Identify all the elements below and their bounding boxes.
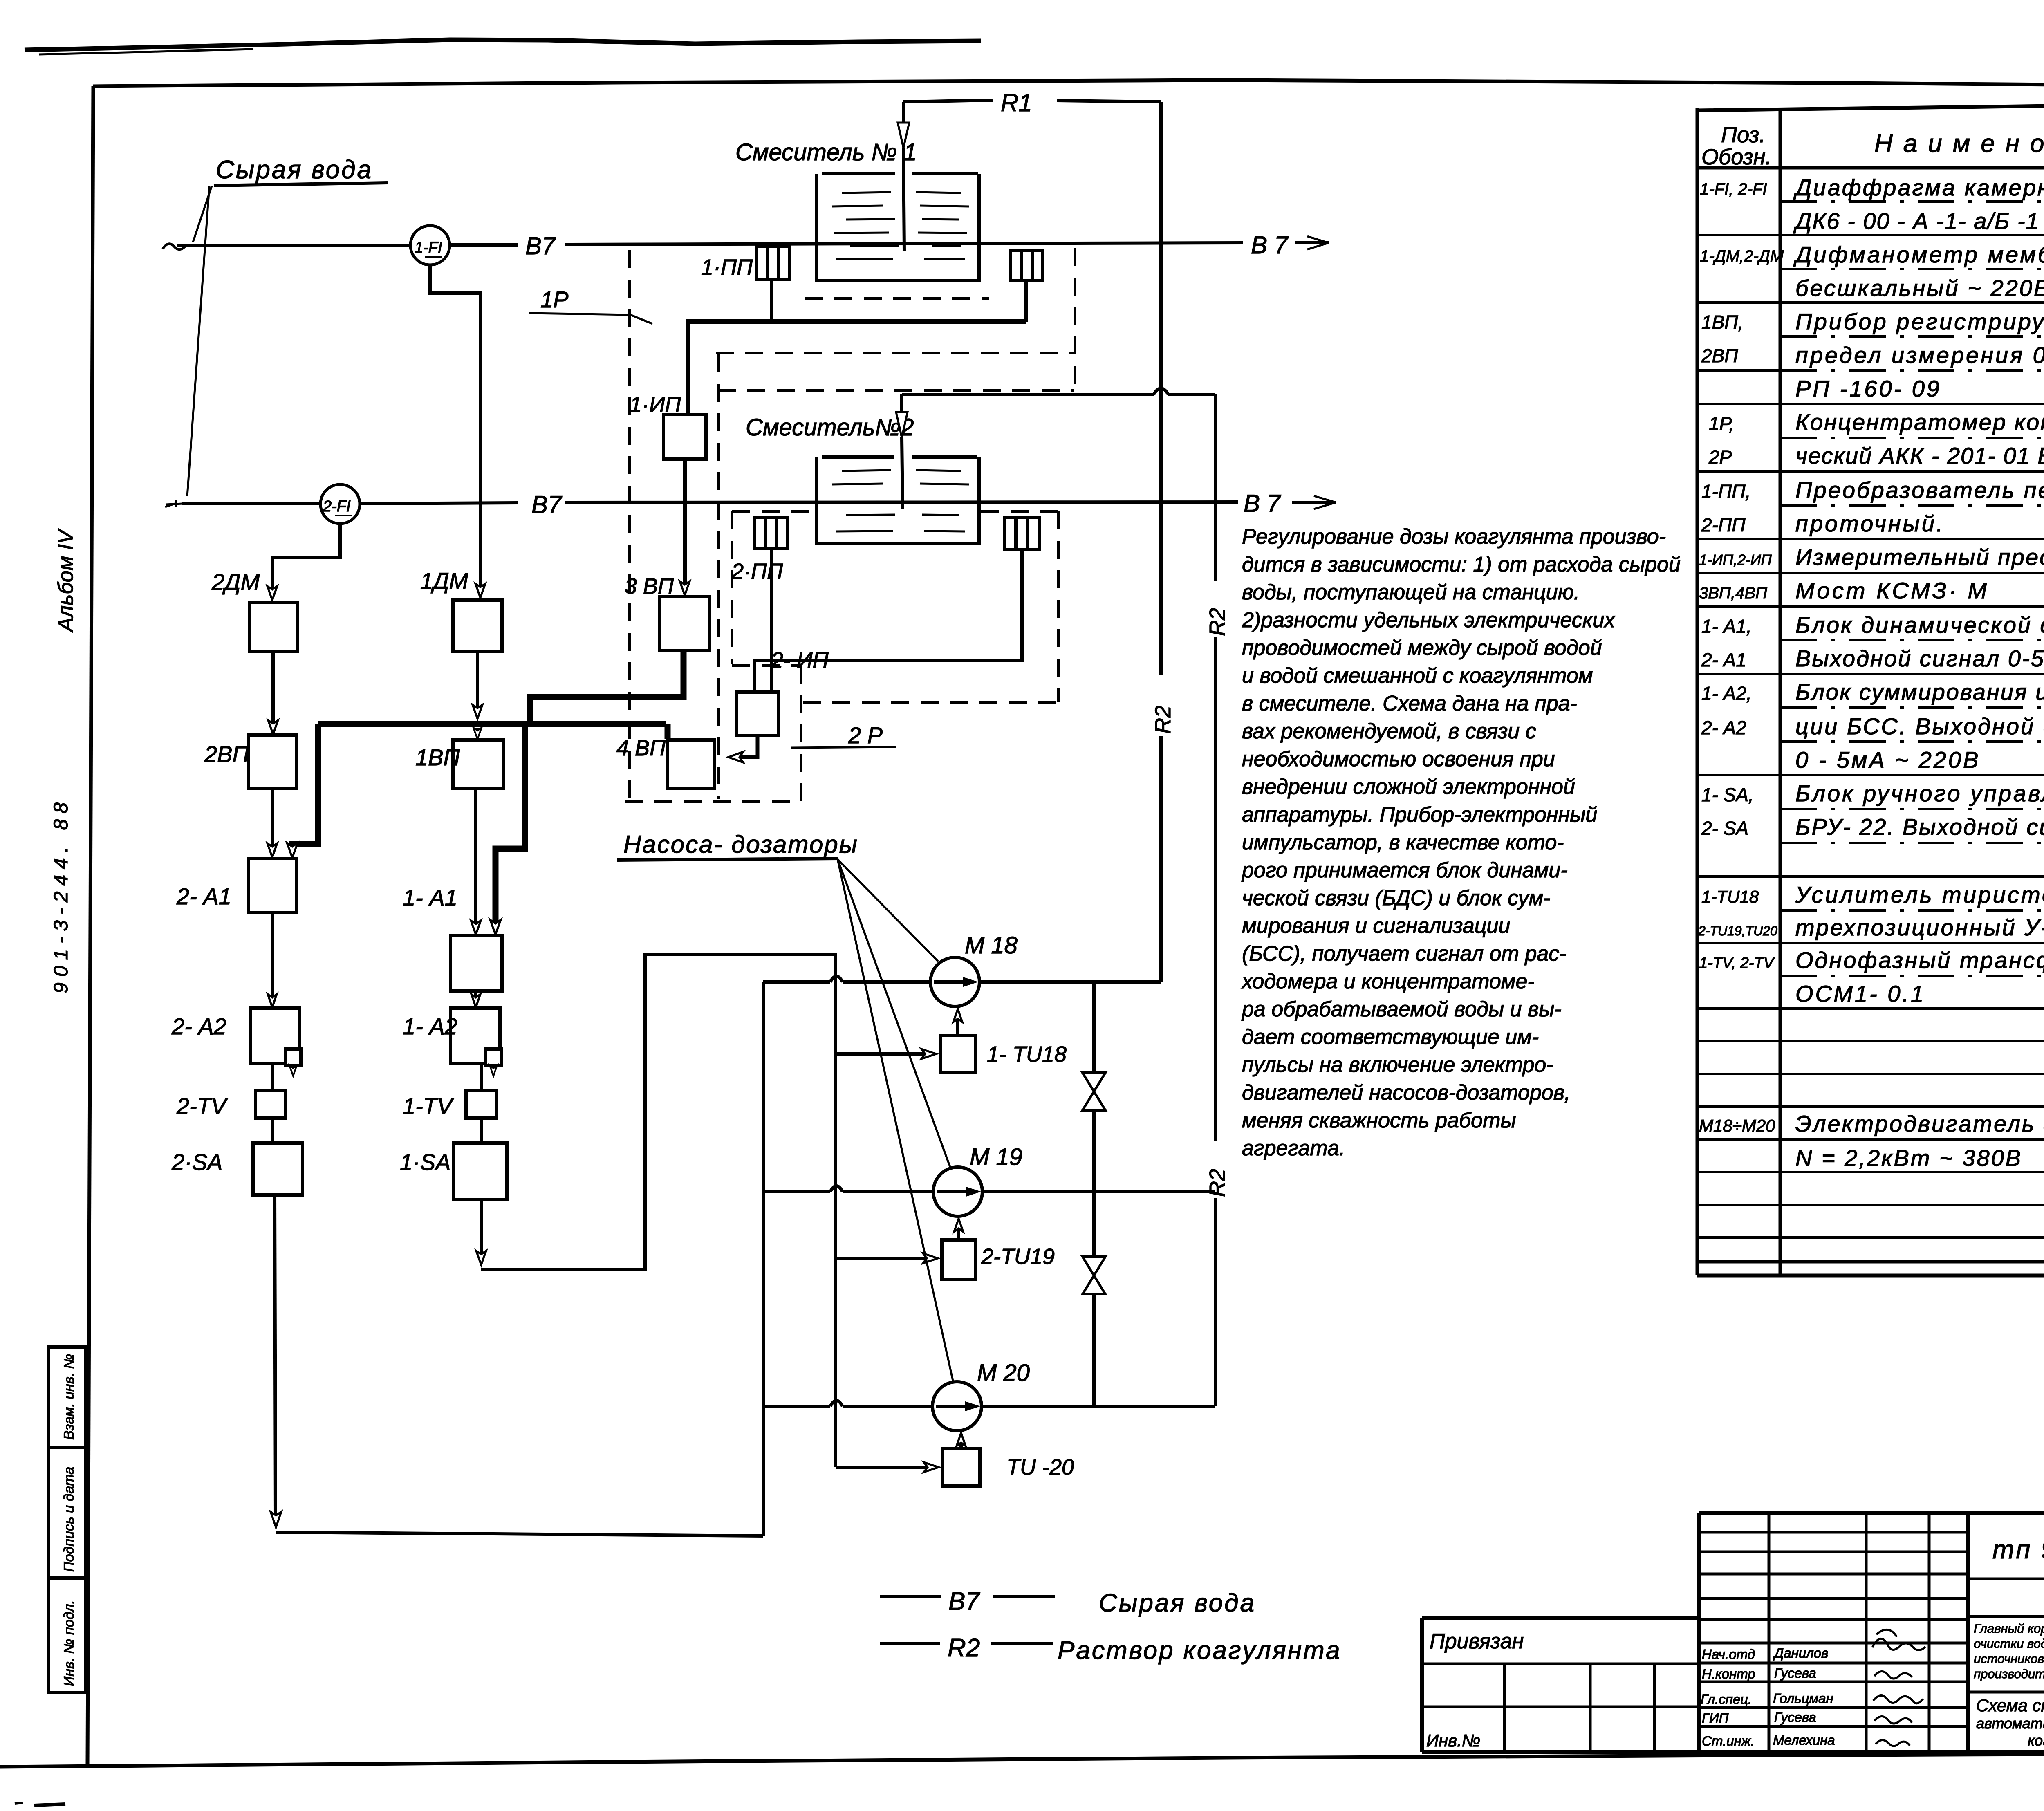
block 2-SA bbox=[171, 1143, 303, 1195]
svg-text:Прибор регистрирующий,: Прибор регистрирующий, bbox=[1795, 309, 2044, 334]
svg-text:проводимостей между сырой водо: проводимостей между сырой водой bbox=[1242, 636, 1602, 660]
svg-text:Привязан: Привязан bbox=[1430, 1629, 1524, 1653]
svg-text:Мост КСМЗ· М: Мост КСМЗ· М bbox=[1795, 578, 1989, 603]
svg-text:источников мутностью до 1500мг: источников мутностью до 1500мг/л bbox=[1974, 1652, 2044, 1666]
svg-text:2ДМ: 2ДМ bbox=[211, 569, 260, 595]
svg-text:В7: В7 bbox=[525, 232, 556, 260]
label 1Р with leader bbox=[529, 287, 652, 324]
svg-text:Концентратомер кондуктометри: Концентратомер кондуктометри bbox=[1795, 409, 2044, 435]
wire 1-FI to 1ДМ bbox=[430, 265, 485, 598]
svg-text:R2: R2 bbox=[1151, 706, 1175, 734]
left box bbox=[1422, 1663, 1699, 1665]
svg-text:Усилитель тиристорный: Усилитель тиристорный bbox=[1795, 882, 2044, 908]
wire TU feed to 1-TU18 bbox=[836, 1049, 936, 1059]
svg-text:М 20: М 20 bbox=[977, 1360, 1030, 1386]
svg-text:тп 901- 3 - 244. 88: тп 901- 3 - 244. 88 bbox=[1992, 1535, 2044, 1564]
wire 1-SA to TU feed bus bbox=[476, 955, 836, 1467]
frame bottom (scan edge, full width) bbox=[0, 1753, 2044, 1767]
svg-text:ОСМ1- 0.1: ОСМ1- 0.1 bbox=[1795, 981, 1925, 1006]
block 1-TV bbox=[403, 1091, 496, 1119]
motor M20 bbox=[932, 1360, 1030, 1431]
svg-text:Н.контр: Н.контр bbox=[1702, 1666, 1755, 1681]
svg-text:1- А1,: 1- А1, bbox=[1701, 616, 1752, 637]
svg-text:ра обрабатываемой воды и вы-: ра обрабатываемой воды и вы- bbox=[1241, 997, 1562, 1021]
flow arrow B7 line2 bbox=[1292, 496, 1336, 509]
motor M18 bbox=[930, 932, 1018, 1006]
wire TU feed to 2-TU19 bbox=[836, 1253, 938, 1263]
wire 2-TU19 to M19 bbox=[954, 1219, 963, 1240]
svg-text:дает соответствующие им-: дает соответствующие им- bbox=[1242, 1025, 1539, 1049]
svg-text:(БСС), получает сигнал от рас-: (БСС), получает сигнал от рас- bbox=[1242, 942, 1567, 966]
dashed enclosure 1P group bbox=[630, 248, 1075, 799]
svg-text:Взам. инв. №: Взам. инв. № bbox=[61, 1354, 77, 1440]
svg-text:ДК6 - 00 - А -1- а/Б -1 гост: ДК6 - 00 - А -1- а/Б -1 гост26969 ~ 8Б bbox=[1793, 208, 2044, 234]
svg-text:1- SА,: 1- SА, bbox=[1701, 784, 1754, 805]
wire B7 line 1 bbox=[163, 243, 1243, 249]
svg-text:коагулянта: коагулянта bbox=[2028, 1732, 2044, 1749]
svg-text:в смесителе. Схема дана на пра: в смесителе. Схема дана на пра- bbox=[1242, 692, 1577, 715]
node label R2 on riser A bbox=[1151, 706, 1175, 734]
svg-text:ческий АКК - 201- 01 В компле: ческий АКК - 201- 01 В комплекте: bbox=[1795, 443, 2044, 468]
dashed enclosure 2P group bbox=[625, 354, 1058, 802]
svg-text:1-ИП,2-ИП: 1-ИП,2-ИП bbox=[1699, 551, 1772, 568]
svg-text:Схема структурная: Схема структурная bbox=[1976, 1696, 2044, 1715]
svg-text:1·SА: 1·SА bbox=[400, 1149, 451, 1175]
svg-text:Смеситель № 1: Смеситель № 1 bbox=[735, 139, 917, 166]
svg-text:Измерительный преобразователь: Измерительный преобразователь bbox=[1795, 544, 2044, 570]
svg-text:предел измерения 0-5мА: предел измерения 0-5мА bbox=[1795, 342, 2044, 368]
svg-text:Инв. № подл.: Инв. № подл. bbox=[61, 1600, 77, 1686]
svg-text:Данилов: Данилов bbox=[1773, 1645, 1828, 1661]
svg-text:2ВП: 2ВП bbox=[204, 741, 249, 767]
svg-text:необходимостью освоения при: необходимостью освоения при bbox=[1242, 747, 1555, 771]
svg-text:Преобразователь первичный: Преобразователь первичный bbox=[1795, 477, 2044, 503]
svg-text:М 18: М 18 bbox=[965, 932, 1018, 959]
svg-text:2- А1: 2- А1 bbox=[1701, 649, 1746, 670]
fan line to M19 bbox=[838, 859, 950, 1168]
mixer1 inlet funnel bbox=[898, 102, 909, 251]
block 1-ИП bbox=[630, 392, 706, 459]
svg-text:Инв.№: Инв.№ bbox=[1426, 1731, 1480, 1750]
svg-text:1-TV: 1-TV bbox=[403, 1093, 454, 1119]
svg-text:меняя скважность работы: меняя скважность работы bbox=[1242, 1109, 1516, 1132]
svg-text:2-ПП: 2-ПП bbox=[1701, 514, 1746, 536]
svg-text:Блок динамической связи БДС: Блок динамической связи БДС bbox=[1795, 612, 2044, 638]
svg-text:Главный корпус для станции: Главный корпус для станции bbox=[1974, 1621, 2044, 1636]
svg-text:Блок ручного управления: Блок ручного управления bbox=[1795, 780, 2044, 806]
legend line R2 bbox=[880, 1634, 1341, 1665]
svg-text:Нач.отд: Нач.отд bbox=[1702, 1647, 1755, 1662]
block 3ВП bbox=[625, 574, 709, 650]
wire 1-ИП to 3ВП bbox=[680, 459, 690, 595]
block TV-20 bbox=[942, 1448, 1074, 1486]
svg-text:Обозн.: Обозн. bbox=[1701, 145, 1772, 169]
svg-text:1Р: 1Р bbox=[540, 287, 569, 312]
svg-text:производительностью 32 тыс.м3/: производительностью 32 тыс.м3/сут bbox=[1974, 1667, 2044, 1681]
wire 2-FI to 2ДМ bbox=[267, 524, 340, 600]
fan line to M20 bbox=[838, 859, 953, 1383]
svg-text:М18÷М20: М18÷М20 bbox=[1699, 1116, 1775, 1135]
wire combs to 1-ИП bbox=[688, 279, 1026, 415]
block 1-А2 bbox=[403, 1008, 501, 1076]
svg-text:2-TV: 2-TV bbox=[176, 1093, 228, 1119]
svg-text:двигателей насосов-дозаторов,: двигателей насосов-дозаторов, bbox=[1242, 1081, 1570, 1105]
leader to line B7-2 bbox=[187, 186, 209, 496]
svg-text:3 ВП: 3 ВП bbox=[625, 574, 674, 598]
wire TU feed to TV-20 bbox=[836, 1462, 939, 1472]
wire 1-А2 to 1-TV bbox=[480, 1063, 483, 1091]
block 1ВП bbox=[415, 740, 503, 788]
block 1ДМ bbox=[420, 568, 502, 652]
svg-text:Диаффрагма камерная Ду = 500: Диаффрагма камерная Ду = 500 bbox=[1793, 175, 2044, 200]
thick signal bus from 3ВП bbox=[292, 650, 684, 928]
svg-text:1-ДМ,2-ДМ: 1-ДМ,2-ДМ bbox=[1700, 247, 1784, 265]
valve V2 bbox=[1083, 1257, 1105, 1294]
svg-text:ТU -20: ТU -20 bbox=[1006, 1455, 1074, 1479]
frame left border bbox=[87, 86, 93, 1764]
wire M19 line bbox=[763, 1186, 1215, 1192]
mixer2 feed wire bbox=[902, 388, 1215, 394]
block 2-ИП bbox=[736, 648, 829, 736]
label 2Р with leader bbox=[791, 722, 896, 748]
wire 1ДМ to 1ВП bbox=[473, 652, 482, 739]
svg-text:R2: R2 bbox=[948, 1634, 980, 1662]
svg-text:2-ТU19,ТU20: 2-ТU19,ТU20 bbox=[1698, 923, 1777, 938]
wire 2-А1 to 2-А2 bbox=[268, 913, 277, 1007]
svg-text:1-ТV, 2-ТV: 1-ТV, 2-ТV bbox=[1699, 955, 1775, 972]
svg-text:В7: В7 bbox=[948, 1587, 980, 1616]
svg-text:2- А2: 2- А2 bbox=[171, 1013, 226, 1039]
svg-text:1-FI, 2-FI: 1-FI, 2-FI bbox=[1700, 180, 1767, 198]
svg-text:3ВП,4ВП: 3ВП,4ВП bbox=[1699, 584, 1768, 602]
svg-text:1·ПП: 1·ПП bbox=[701, 255, 753, 280]
svg-text:ции БСС. Выходной сигнал: ции БСС. Выходной сигнал bbox=[1795, 713, 2044, 739]
node label R2 on riser B (lower) bbox=[1205, 1169, 1230, 1197]
wire 1-TV to 1-SA bbox=[480, 1118, 483, 1143]
sensor comb 2-ПП (mixer2 left) bbox=[731, 517, 787, 584]
node label R2 on riser B (upper) bbox=[1205, 608, 1230, 636]
svg-text:R2: R2 bbox=[1205, 1169, 1230, 1197]
svg-text:дится в зависимости: 1) от рас: дится в зависимости: 1) от расхода сырой bbox=[1242, 553, 1681, 576]
svg-text:Выходной сигнал 0-5мА ~220В: Выходной сигнал 0-5мА ~220В bbox=[1795, 646, 2044, 671]
mixer2 inlet funnel bbox=[896, 394, 908, 509]
svg-text:1- А2,: 1- А2, bbox=[1701, 683, 1752, 704]
svg-text:1-ТU18: 1-ТU18 bbox=[1701, 887, 1759, 906]
label Насоса-дозаторы bbox=[617, 831, 858, 860]
wire 2ДМ to 2ВП bbox=[268, 652, 278, 734]
svg-text:Электродвигатель 4А90L4: Электродвигатель 4А90L4 bbox=[1795, 1111, 2044, 1136]
svg-text:4 ВП: 4 ВП bbox=[616, 736, 666, 760]
svg-text:М 19: М 19 bbox=[970, 1144, 1022, 1170]
svg-text:Ст.инж.: Ст.инж. bbox=[1702, 1733, 1755, 1748]
svg-text:1ДМ: 1ДМ bbox=[420, 568, 468, 594]
svg-text:Гл.спец.: Гл.спец. bbox=[1701, 1692, 1752, 1707]
svg-text:ГИП: ГИП bbox=[1702, 1710, 1729, 1726]
block 2-TU19 bbox=[942, 1240, 1055, 1279]
block 2-TV bbox=[176, 1091, 286, 1119]
svg-text:2 Р: 2 Р bbox=[848, 722, 883, 748]
block 1-SA bbox=[400, 1143, 507, 1199]
svg-text:Гольцман: Гольцман bbox=[1773, 1691, 1833, 1706]
legend line В7 bbox=[880, 1587, 1256, 1617]
svg-text:Дифманометр мембранный: Дифманометр мембранный bbox=[1793, 242, 2044, 267]
outer bbox=[1699, 1511, 2044, 1515]
svg-text:проточный.: проточный. bbox=[1795, 511, 1945, 536]
svg-text:пульсы на включение электро-: пульсы на включение электро- bbox=[1242, 1053, 1553, 1077]
svg-text:Гусева: Гусева bbox=[1774, 1710, 1816, 1725]
wire 2-TV to 2-SA bbox=[271, 1118, 274, 1143]
svg-text:РП -160- 09: РП -160- 09 bbox=[1795, 376, 1941, 401]
svg-text:ходомера и концентратоме-: ходомера и концентратоме- bbox=[1241, 970, 1535, 993]
svg-text:1- ТU18: 1- ТU18 bbox=[987, 1042, 1067, 1067]
block 2ВП bbox=[204, 735, 296, 788]
svg-text:В7: В7 bbox=[531, 491, 563, 518]
wire R1 from mixer1 to riser A bbox=[903, 100, 1161, 102]
flow indicator 2-FI bbox=[320, 484, 360, 524]
block 2-А1 bbox=[176, 858, 296, 913]
svg-text:2·SА: 2·SА bbox=[171, 1149, 223, 1175]
svg-text:В 7: В 7 bbox=[1244, 490, 1282, 517]
svg-text:воды, поступающей на станцию.: воды, поступающей на станцию. bbox=[1242, 581, 1580, 604]
wire 2-А2 to 2-TV bbox=[271, 1063, 274, 1091]
svg-text:рого принимается блок динами-: рого принимается блок динами- bbox=[1241, 858, 1568, 882]
svg-text:2- А2: 2- А2 bbox=[1701, 717, 1746, 738]
svg-text:В 7: В 7 bbox=[1251, 231, 1289, 259]
bottom-left scan marks bbox=[15, 1803, 23, 1804]
frame top border bbox=[93, 80, 2044, 87]
svg-text:901-3-244. 88: 901-3-244. 88 bbox=[50, 797, 72, 993]
svg-text:Насоса- дозаторы: Насоса- дозаторы bbox=[623, 831, 858, 858]
svg-text:2-FI: 2-FI bbox=[323, 498, 351, 515]
wire 2ВП to 2-А1 bbox=[267, 788, 277, 857]
svg-text:R1: R1 bbox=[1001, 89, 1032, 117]
svg-text:внедрении сложной электронной: внедрении сложной электронной bbox=[1242, 775, 1575, 799]
svg-text:Однофазный трансформатор: Однофазный трансформатор bbox=[1795, 947, 2044, 973]
wire 1ВП to 1-А1 bbox=[471, 788, 481, 935]
sensor comb 1-ПП (mixer1 left) bbox=[701, 246, 789, 280]
svg-text:2- SА: 2- SА bbox=[1701, 818, 1748, 839]
wire TV-20 to M20 bbox=[957, 1433, 966, 1448]
valve V1 bbox=[1083, 1073, 1105, 1110]
svg-text:трехпозиционный У- 22М: трехпозиционный У- 22М bbox=[1795, 914, 2044, 940]
arrow bus into 2-А1 bbox=[287, 843, 298, 858]
svg-text:1-ПП,: 1-ПП, bbox=[1701, 481, 1750, 502]
sensor comb mixer1 right bbox=[1010, 250, 1043, 281]
svg-text:2·ПП: 2·ПП bbox=[731, 559, 783, 584]
svg-text:мирования и сигнализации: мирования и сигнализации bbox=[1242, 914, 1510, 938]
fan line to M18 bbox=[838, 859, 938, 962]
svg-text:1-FI: 1-FI bbox=[415, 239, 442, 256]
block 4ВП bbox=[616, 736, 714, 789]
svg-text:2ВП: 2ВП bbox=[1701, 345, 1738, 366]
svg-text:Подпись и дата: Подпись и дата bbox=[61, 1467, 77, 1572]
svg-text:2-ТU19: 2-ТU19 bbox=[981, 1244, 1055, 1269]
svg-text:БРУ- 22. Выходной сигнал 0-5м: БРУ- 22. Выходной сигнал 0-5мА bbox=[1795, 814, 2044, 840]
svg-text:2- А1: 2- А1 bbox=[176, 883, 231, 909]
right box rows bbox=[1968, 1578, 2044, 1580]
svg-text:1- А1: 1- А1 bbox=[403, 885, 457, 910]
svg-text:импульсатор, в качестве кото-: импульсатор, в качестве кото- bbox=[1242, 831, 1564, 854]
flow indicator 1-FI bbox=[410, 226, 450, 265]
svg-text:Мелехина: Мелехина bbox=[1773, 1733, 1835, 1748]
svg-text:Смеситель№2: Смеситель№2 bbox=[746, 414, 914, 441]
svg-text:аппаратуры. Прибор-электронный: аппаратуры. Прибор-электронный bbox=[1242, 803, 1597, 827]
svg-text:N = 2,2кВт ~ 380В: N = 2,2кВт ~ 380В bbox=[1795, 1145, 2022, 1171]
block 1-А1 bbox=[403, 885, 502, 991]
wire 1-TU18 to M18 bbox=[953, 1009, 962, 1035]
svg-text:Гусева: Гусева bbox=[1774, 1665, 1816, 1681]
svg-text:1·ИП: 1·ИП bbox=[630, 392, 681, 417]
label Сырая вода bbox=[214, 156, 388, 186]
wire combs to 2-ИП bbox=[755, 548, 1022, 692]
svg-text:автоматизации дозирования: автоматизации дозирования bbox=[1976, 1715, 2044, 1732]
svg-text:Сырая вода: Сырая вода bbox=[216, 156, 373, 184]
wire 1-А1 to 1-А2 bbox=[471, 991, 480, 1007]
riser A (R1 down to M18) bbox=[1159, 102, 1163, 982]
svg-text:Регулирование дозы коагулянта: Регулирование дозы коагулянта произво- bbox=[1242, 525, 1666, 549]
arrow bus into 1-А1 bbox=[490, 920, 501, 935]
svg-text:1ВП: 1ВП bbox=[415, 744, 460, 770]
motor M19 bbox=[933, 1144, 1022, 1216]
mixer 1 tank bbox=[816, 174, 979, 281]
svg-text:R2: R2 bbox=[1205, 608, 1230, 636]
wire B7 line 2 bbox=[165, 500, 1238, 507]
signatures squiggles bbox=[1872, 1629, 1925, 1746]
svg-text:Наименование: Наименование bbox=[1874, 130, 2044, 158]
wire M18 line bbox=[763, 976, 1161, 982]
block 2-А2 bbox=[171, 1008, 301, 1076]
sensor comb mixer2 right bbox=[1004, 517, 1039, 550]
riser B (R2 down to M20) bbox=[1214, 394, 1217, 1406]
svg-text:2Р: 2Р bbox=[1708, 446, 1732, 468]
svg-text:2)разности удельных электричес: 2)разности удельных электрических bbox=[1242, 608, 1616, 632]
svg-text:вах рекомендуемой, в связи с: вах рекомендуемой, в связи с bbox=[1242, 719, 1536, 743]
scan top edge line bbox=[25, 40, 981, 50]
svg-text:1ВП,: 1ВП, bbox=[1701, 312, 1743, 333]
svg-text:Сырая вода: Сырая вода bbox=[1099, 1589, 1256, 1617]
svg-text:бесшкальный ~ 220В ДМЭР· М: бесшкальный ~ 220В ДМЭР· М bbox=[1795, 275, 2044, 301]
svg-text:агрегата.: агрегата. bbox=[1242, 1136, 1345, 1160]
mixer 2 tank bbox=[816, 457, 979, 543]
wire 2-SA down to motors bus bbox=[271, 982, 763, 1536]
svg-text:Блок суммирования и сигнализ: Блок суммирования и сигнализа- bbox=[1795, 679, 2044, 705]
leader to line B7-1 bbox=[193, 186, 212, 242]
svg-text:очистки воды поверхностных: очистки воды поверхностных bbox=[1974, 1636, 2044, 1651]
block 1-TU18 bbox=[940, 1035, 1067, 1073]
wire 2-ИП to 4ВП bbox=[728, 736, 758, 762]
svg-text:0 - 5мА ~ 220В: 0 - 5мА ~ 220В bbox=[1795, 747, 1980, 773]
svg-text:Альбом IV: Альбом IV bbox=[54, 528, 78, 633]
central signature grid bbox=[1768, 1513, 1771, 1752]
svg-text:Поз.: Поз. bbox=[1721, 123, 1766, 147]
svg-text:1- А2: 1- А2 bbox=[403, 1013, 457, 1039]
svg-text:и водой смешанной с коагулянто: и водой смешанной с коагулянтом bbox=[1242, 664, 1593, 688]
valve line between motor lines bbox=[1092, 982, 1096, 1406]
svg-text:ческой связи (БДС) и блок сум-: ческой связи (БДС) и блок сум- bbox=[1242, 886, 1550, 910]
wire M20 line bbox=[763, 1401, 1215, 1406]
flow arrow B7 line1 bbox=[1295, 236, 1329, 249]
svg-text:Раствор коагулянта: Раствор коагулянта bbox=[1058, 1636, 1341, 1665]
svg-text:1Р,: 1Р, bbox=[1709, 413, 1734, 434]
block 2ДМ bbox=[211, 569, 298, 652]
